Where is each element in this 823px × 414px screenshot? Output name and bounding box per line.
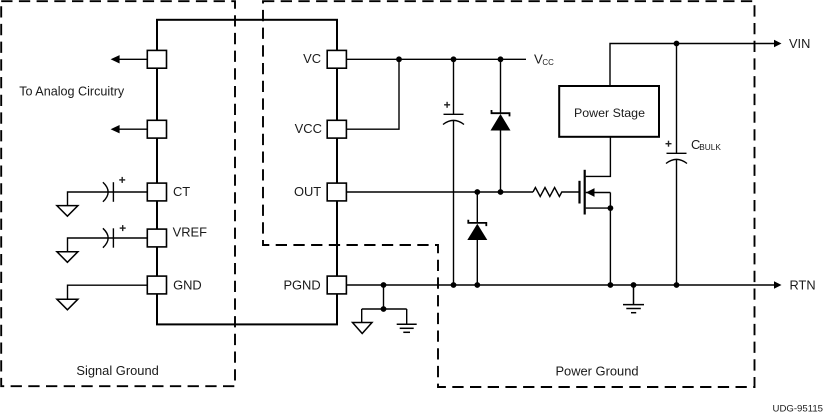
VIN arrowhead	[774, 40, 782, 48]
node rail earth junction	[631, 282, 637, 288]
Q1 body arrow	[586, 188, 595, 197]
wire PGND rail to RTN	[346, 284, 775, 286]
wire arrow to analog circuitry 1	[111, 55, 148, 63]
pin VC box	[327, 50, 346, 68]
svg-text:BULK: BULK	[699, 142, 721, 152]
pin PGND box	[327, 276, 346, 294]
wire arrow to analog circuitry 2	[111, 125, 148, 133]
pin box left 2	[147, 120, 166, 138]
plus sign C1	[444, 102, 450, 108]
plus sign CT cap	[119, 177, 125, 183]
RTN arrowhead	[774, 281, 782, 289]
node PGND junction	[381, 282, 387, 288]
svg-text:Power Ground: Power Ground	[555, 363, 638, 378]
ground (triangle) PGND	[353, 323, 373, 334]
wire GND pin to ground	[68, 285, 148, 299]
capacitor at VREF (polarized)	[103, 228, 147, 247]
pin GND box	[147, 276, 166, 294]
wire VC to VCC node	[346, 58, 526, 60]
pin VCC box	[327, 120, 346, 138]
resistor R1 (gate)	[533, 188, 579, 197]
plus sign CBULK	[666, 141, 672, 147]
pin VREF box	[147, 229, 166, 247]
svg-text:Signal Ground: Signal Ground	[76, 363, 158, 378]
svg-text:UDG-95115: UDG-95115	[773, 403, 823, 414]
wire VIN	[610, 44, 775, 86]
transistor Q1 (power MOSFET)	[580, 137, 611, 285]
node Q1 source junction	[608, 205, 614, 211]
ground (triangle) CT	[57, 206, 78, 217]
node D2 bottom junction	[474, 282, 480, 288]
node C1 bottom junction	[451, 282, 457, 288]
svg-text:VREF: VREF	[173, 225, 208, 240]
svg-text:VCC: VCC	[295, 121, 322, 136]
node D1 bottom junction	[498, 189, 504, 195]
svg-text:VC: VC	[303, 51, 321, 66]
svg-text:CT: CT	[173, 184, 190, 199]
node C1 top junction	[451, 56, 457, 62]
pin OUT box	[327, 183, 346, 201]
IC U1 body	[157, 20, 337, 325]
wire VREF cap to ground	[68, 238, 108, 252]
svg-text:GND: GND	[173, 277, 202, 292]
svg-text:PGND: PGND	[283, 277, 320, 292]
wire PGND pin ground branch	[362, 285, 407, 324]
label VCC net	[534, 52, 554, 67]
node D2 top junction	[474, 189, 480, 195]
ground (earth) PGND	[397, 324, 417, 332]
pin CT box	[147, 183, 166, 201]
label CBULK	[691, 137, 721, 152]
ground (triangle) GND	[57, 299, 78, 310]
node Q1 source to rail junction	[608, 282, 614, 288]
zener diode D2 (gate clamp)	[467, 192, 487, 285]
power stage U2	[559, 86, 659, 137]
signal ground boundary (dashed box)	[1, 1, 235, 386]
svg-text:RTN: RTN	[790, 278, 816, 293]
svg-text:VIN: VIN	[789, 36, 810, 51]
node D1 top junction	[498, 56, 504, 62]
wire OUT to gate resistor	[346, 191, 533, 193]
plus sign VREF cap	[120, 225, 126, 231]
svg-text:To Analog Circuitry: To Analog Circuitry	[19, 85, 125, 99]
node PGND ground tee junction	[381, 306, 387, 312]
capacitor CBULK (polarized)	[666, 44, 687, 286]
node CBULK bottom junction	[674, 282, 680, 288]
svg-text:OUT: OUT	[294, 184, 321, 199]
ground (earth) on power rail	[623, 285, 644, 313]
node CBULK top junction	[674, 41, 680, 47]
node VC-VCC junction	[396, 56, 402, 62]
capacitor at CT (polarized)	[103, 182, 147, 202]
power ground boundary (dashed polygon)	[263, 1, 755, 387]
ground (triangle) VREF	[57, 252, 78, 263]
svg-text:Power Stage: Power Stage	[574, 106, 645, 120]
svg-text:CC: CC	[542, 58, 554, 67]
wire VCC branch	[346, 59, 399, 129]
capacitor C1 (VCC bypass, polarized)	[443, 59, 464, 285]
wire CT cap to ground	[68, 192, 108, 206]
pin box left 1	[147, 50, 166, 68]
zener diode D1 (VCC clamp)	[491, 59, 511, 192]
